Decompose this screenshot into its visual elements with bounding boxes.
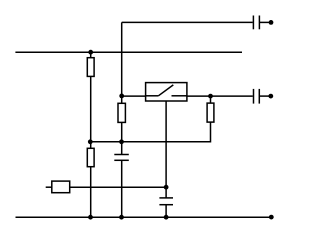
capacitor C3 bottom plate bbox=[114, 159, 129, 161]
capacitor C2 right plate bbox=[258, 89, 260, 104]
junction upper bus / R1 bbox=[88, 50, 93, 55]
junction S1 right pin / R4 bbox=[208, 94, 213, 99]
switch S1 blade bbox=[158, 85, 173, 96]
junction bottom bus / R3 bbox=[88, 215, 93, 220]
wire top bus (node to C1) bbox=[122, 21, 253, 23]
capacitor C1 left plate bbox=[252, 16, 254, 30]
capacitor C3 top plate bbox=[114, 154, 129, 156]
junction mid rail / C3 branch bbox=[119, 139, 124, 144]
junction bottom bus / C4 bbox=[164, 215, 169, 220]
node B terminal dot mid right bbox=[268, 94, 273, 99]
junction bottom bus / C3 bbox=[119, 215, 124, 220]
wire R3 bottom to bottom bus bbox=[90, 167, 92, 218]
resistor R3 bbox=[87, 148, 94, 166]
wire C4 to bottom bus bbox=[165, 205, 167, 218]
resistor R4 bbox=[207, 103, 214, 122]
wire switch S1 bottom pin bbox=[165, 101, 167, 198]
switch S1 left contact bbox=[146, 95, 159, 97]
wire vertical net x=121.7 upper segment bbox=[121, 22, 123, 103]
wire upper bus (second horizontal rail) bbox=[15, 51, 242, 53]
capacitor C2 left plate bbox=[253, 89, 255, 104]
wire R2 bottom to mid rail bbox=[121, 122, 123, 154]
wire switch S1 right pin to C2 bbox=[187, 95, 253, 97]
switch S1 enclosure box bbox=[146, 83, 187, 101]
wire R5 left stub bbox=[46, 186, 52, 188]
capacitor C1 right plate bbox=[258, 16, 260, 30]
junction S1 left pin / vertical net bbox=[119, 94, 124, 99]
resistor R5 bbox=[52, 181, 70, 193]
wire R4 top stub bbox=[210, 96, 212, 103]
capacitor C4 bottom plate bbox=[159, 204, 173, 206]
wire C2 to node B bbox=[259, 95, 271, 97]
wire mid rail with corner up to R4 bbox=[90, 122, 210, 142]
switch S1 right contact bbox=[172, 95, 187, 97]
wire R5 to C4 node bbox=[70, 186, 166, 188]
wire C1 to node A bbox=[259, 21, 270, 23]
node A terminal dot top right bbox=[269, 20, 274, 25]
wire switch S1 left pin bbox=[122, 95, 146, 97]
wire bottom bus bbox=[16, 216, 272, 218]
node C terminal dot bottom right bbox=[269, 215, 274, 220]
resistor R1 bbox=[87, 58, 94, 77]
capacitor C4 top plate bbox=[159, 197, 173, 199]
wire R1 bottom to mid rail bbox=[90, 76, 92, 148]
wire C3 to bottom bus bbox=[121, 160, 123, 217]
wire R1 top stub bbox=[90, 52, 92, 58]
resistor R2 bbox=[118, 103, 125, 122]
junction R5 rail / C4 branch bbox=[164, 185, 169, 190]
junction mid rail / R3 branch bbox=[88, 139, 93, 144]
